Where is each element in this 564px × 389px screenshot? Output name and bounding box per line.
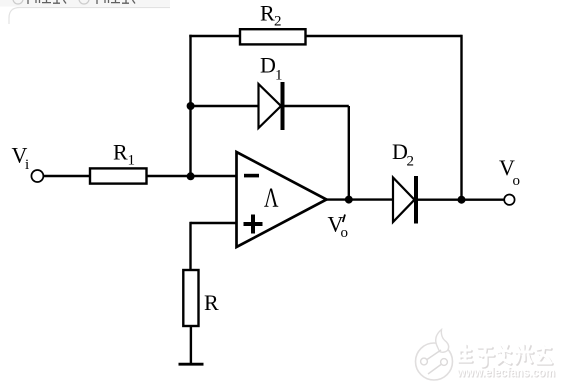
wire: right vertical (feedback down to output)	[460, 35, 462, 200]
svg-text:R: R	[113, 140, 128, 165]
op-amp plus sign	[244, 222, 263, 226]
wire: left vertical (inverting node riser)	[189, 35, 191, 176]
resistor R (vertical)	[183, 270, 198, 326]
wire: input from Vi terminal to R1	[44, 175, 91, 177]
svg-text:R: R	[204, 290, 219, 315]
svg-text:2: 2	[274, 14, 282, 30]
svg-text:o: o	[513, 173, 521, 189]
wire: top feedback left segment	[189, 35, 240, 37]
faint page remnant: gray strip and rounded panel corner top-left	[0, 0, 170, 24]
terminal Vi	[31, 170, 43, 182]
wire: D2 cathode to right node	[418, 198, 462, 200]
svg-text:2: 2	[407, 154, 415, 170]
watermark text 电子发烧友 (hand-drawn brush strokes, embossed)	[459, 345, 552, 367]
wire: right node to Vo terminal	[462, 198, 505, 200]
svg-text:D: D	[260, 53, 276, 78]
node B: D1 branch junction	[187, 102, 195, 110]
resistor R2	[240, 29, 306, 44]
wire: non-inverting input horizontal	[191, 222, 237, 224]
svg-text:Λ: Λ	[264, 183, 279, 213]
wire: mid vertical from D1 branch to output node	[348, 106, 350, 200]
watermark logo (elecfans)	[416, 330, 453, 381]
diode D2	[393, 176, 416, 224]
svg-text:i: i	[25, 157, 29, 173]
wire: input from R1 to op-amp inverting input	[147, 175, 237, 177]
node D: output feedback junction	[458, 196, 466, 204]
wire: top feedback right segment	[306, 35, 462, 37]
label V'o (op-amp output voltage)	[328, 212, 349, 242]
diode D1	[259, 82, 283, 130]
faint clipped text remnant top-left	[13, 0, 135, 4]
resistor R1	[90, 168, 147, 183]
svg-text:R: R	[260, 1, 275, 26]
wire: D1 branch left	[191, 105, 260, 107]
node C: op-amp output junction	[345, 196, 353, 204]
op-amp minus sign	[244, 174, 259, 178]
wire: R to ground	[190, 326, 192, 364]
wire: D1 branch right	[284, 105, 349, 107]
svg-text:o: o	[341, 225, 349, 241]
svg-text:www.elecfans.com: www.elecfans.com	[456, 365, 555, 380]
svg-text:1: 1	[275, 68, 283, 84]
wire: vertical from + input down to R	[189, 222, 191, 270]
svg-text:1: 1	[128, 153, 136, 169]
terminal Vo	[504, 195, 514, 205]
node A: inverting input junction	[187, 172, 195, 180]
ground	[179, 363, 204, 366]
op-amp U1	[237, 152, 327, 247]
watermark url www.elecfans.com (embossed)	[456, 365, 556, 381]
svg-text:D: D	[392, 139, 408, 164]
wire: op-amp output to D2	[326, 198, 394, 200]
